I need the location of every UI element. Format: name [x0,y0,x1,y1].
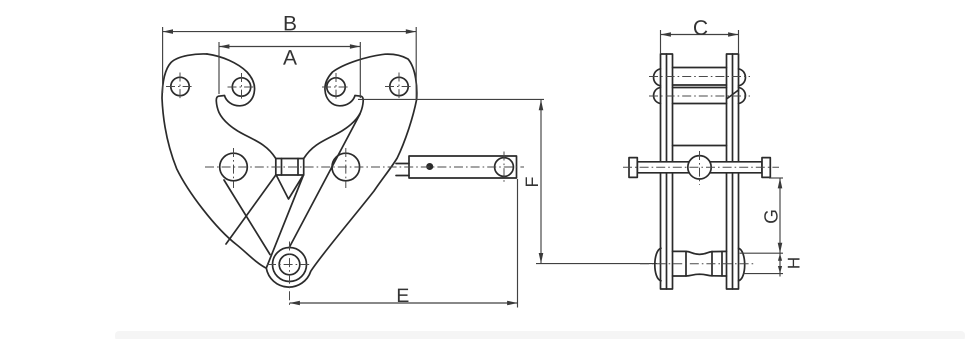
label E [398,289,409,302]
arrow B right [406,29,416,34]
roller flange line left [685,251,687,276]
side plate right mid line [732,54,734,289]
vertical centerline tommy bar hole [503,152,505,183]
arrow C left [661,32,671,37]
centerlines side view [623,77,779,264]
roller cap right [739,248,745,281]
arrow H top [778,253,782,260]
tommy bar hole [495,158,514,177]
dim C line [661,34,739,36]
arrow G top [778,178,783,188]
top pin row 2 [673,87,727,89]
crosshair suspension hole [267,264,312,266]
vertical centerline middle-left hole [233,148,235,188]
hole middle-left [220,153,248,181]
right arm inner edge [290,114,361,247]
dim F extension top [358,98,544,100]
roller cap left [655,248,661,281]
crosshair hole top-left outer [166,86,194,88]
screw vertical centerline [699,151,701,185]
dim E extension right [517,179,519,308]
pin cap row1 right [739,69,746,86]
dim A extension left [218,42,220,94]
dim F extension bottom [536,263,657,265]
dim G/H extension middle [740,252,783,254]
weld tick right plate [727,90,739,99]
bottom roller (spool) [673,251,727,276]
label C [694,20,707,35]
table header strip [115,331,965,339]
hole top-left outer [171,77,189,95]
left scissor edge [226,175,276,244]
top pin row 1 [673,67,727,69]
crosshair hole top-left inner [228,86,256,88]
jaw hook left (top edge curling around left inner hole) [207,54,276,159]
dim G extension top [769,177,783,179]
nut block inner wall right [297,159,299,176]
side plate left mid line [666,54,668,289]
crosshair hole top-right inner [322,86,350,88]
dim F line [540,100,542,264]
crosshair hole top-right outer [385,86,413,88]
grease dot [427,164,432,169]
dim C extension right [738,30,740,54]
arrow C right [728,32,738,37]
arrow A right [350,44,360,49]
nut block inner wall left [281,159,283,176]
dim E line [290,302,518,304]
hole top-right outer [390,77,408,95]
arrow B left [163,29,173,34]
label H [788,258,800,268]
roller flange line right [721,251,723,276]
dimensions front view [163,27,657,308]
nut block [276,159,304,176]
pin row1 centerline [649,76,750,78]
label F [526,177,538,186]
arrow E left [290,301,300,306]
arrow G bottom [778,243,783,253]
right arm rear edge [266,175,303,268]
dim B extension left [162,27,164,93]
pin row2 centerline [649,95,750,97]
hole top-left inner [232,78,250,96]
pin cap row1 left [654,69,661,86]
left arm rear edge [224,180,270,255]
dim H line + tails [779,253,781,276]
dim C extension left [660,30,662,54]
tommy bar knob right [762,158,770,178]
suspension hole inner [279,254,300,275]
label A [283,50,297,64]
label B [285,16,296,30]
V groove below nut [276,175,303,199]
side plate right [727,54,739,289]
spindle bar [409,156,517,178]
spindle stub [396,164,409,176]
arrow F bottom [539,253,544,263]
dim A extension right [359,42,361,98]
pin cap row2 left [654,87,661,103]
dim B extension right [415,27,417,100]
arrow A left [219,44,229,49]
suspension hole outer [273,248,307,282]
dim G line [779,178,781,253]
label G [764,211,777,223]
dim A line [219,46,360,48]
hole top-right inner [327,78,345,96]
tommy bar knob left [629,158,637,178]
centerlines front view [166,73,524,308]
roller centerline [640,263,754,265]
arrow E right [507,301,517,306]
jaw hook right (top edge curling around right inner hole) [304,54,385,158]
dimensions side view [661,30,784,277]
clamp body outer silhouette [162,54,417,287]
tommy bar centerline [623,166,779,168]
cross line below top section [673,145,727,147]
vertical centerline middle-right hole [345,148,347,188]
tommy bar [637,162,762,173]
arrow H bottom [778,266,782,273]
pin cap row2 right [739,87,746,103]
side plate left [661,54,673,289]
hole middle-right [332,153,360,181]
dim B line [163,31,417,33]
dim H extension bottom [743,273,783,275]
screw boss circle [688,156,711,179]
arrow F top [539,100,544,110]
roller flange line mid-right [711,252,713,276]
main horizontal centerline [205,166,524,168]
